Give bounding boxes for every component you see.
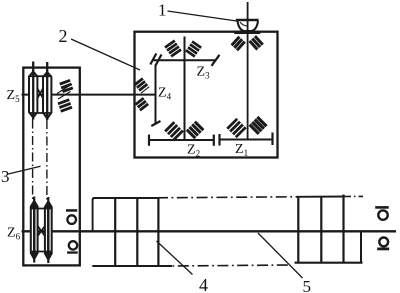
svg-text:3: 3: [1, 167, 10, 186]
right group vertical rib 3: [342, 195, 344, 263]
cup (grinding wheel) top line: [236, 19, 259, 22]
Z2 left tick: [148, 135, 150, 146]
bevel gear pair under cup, left: [232, 37, 245, 50]
Z5 pulley top connector: [29, 75, 52, 77]
worm gear beside Z5, lower: [58, 100, 72, 112]
Z2 right tick: [213, 135, 215, 146]
vertical shaft V2 (cup spindle): [247, 2, 249, 140]
Z1 right tick: [271, 133, 273, 146]
cup inner arc: [240, 22, 247, 26]
Z3 left double ticks: [150, 54, 156, 65]
table vertical rib 3: [157, 198, 159, 266]
left housing box: [23, 68, 80, 266]
bearing symbol left lower: circle: [69, 241, 77, 249]
leader line for 4: [157, 241, 193, 275]
right bottom solid line: [295, 262, 363, 264]
right short vertical rib: [360, 231, 362, 262]
worm gear beside Z5, upper: [60, 80, 73, 91]
Z6 belt cross X: [38, 226, 45, 236]
bearing symbol right upper: bar: [375, 206, 389, 209]
bearing symbol left upper: circle: [67, 215, 76, 224]
Z6 pulley left center line: [33, 197, 35, 263]
Z1 left tick: [218, 134, 220, 146]
Z5 pulley right center line: [46, 62, 48, 120]
table vertical rib 2: [136, 198, 138, 266]
vertical shaft V1: [184, 37, 186, 141]
gear on Z1, left: [227, 119, 245, 137]
svg-text:1: 1: [158, 1, 167, 20]
table top contour solid right: [296, 196, 345, 198]
svg-text:5: 5: [303, 277, 312, 293]
svg-text:4: 4: [199, 275, 208, 293]
input shaft from Z5 into gearbox: [22, 94, 156, 96]
gear pair on V1 top, left: [165, 41, 181, 57]
gearbox housing box: [135, 32, 278, 158]
bearing symbol right lower: circle: [379, 238, 388, 247]
V3 bottom end tick: [151, 121, 160, 126]
right group vertical rib 1: [297, 197, 299, 263]
table top contour dash-dot middle: [157, 197, 296, 198]
bevel gear pair under cup, right: [250, 36, 263, 49]
table top contour solid left: [93, 198, 157, 231]
input bevel gear, upper: [135, 78, 150, 93]
Z6 pulley left slits: [31, 209, 33, 252]
main long shaft line (lead screw): [22, 230, 397, 232]
worm axis line upper: [57, 84, 72, 94]
leader line for 1: [168, 11, 237, 21]
right group vertical rib 2: [320, 197, 322, 263]
leader line for 2: [71, 39, 140, 70]
Z6 pulley top connector: [30, 208, 52, 210]
table bottom dash-dot middle: [172, 265, 290, 266]
leader line for 5: [258, 233, 303, 278]
svg-text:2: 2: [59, 26, 68, 46]
Z5 pulley right body: [43, 72, 51, 119]
belt dash-dot line left: [32, 120, 34, 201]
input bevel gear, lower: [135, 98, 148, 110]
table bottom solid left: [92, 265, 172, 267]
gear on Z1, right: [250, 117, 267, 134]
Z6 pulley bottom connector: [30, 251, 52, 253]
gear pair on V1 top, right: [186, 41, 201, 56]
Z6 pulley right center line: [47, 197, 49, 263]
Z3 right end tick: [212, 55, 220, 66]
table vertical rib 1: [114, 198, 116, 266]
Z5 pulley left center line: [32, 62, 34, 120]
cup base bar: [234, 31, 260, 34]
Z5 pulley bottom connector: [29, 112, 52, 114]
bearing symbol right lower: bar: [377, 248, 389, 251]
leader line for 3: [8, 166, 40, 174]
Z6 pulley left body: [31, 201, 38, 260]
gear Z2 shaft line: [149, 139, 214, 141]
Z5 belt cross X: [38, 89, 43, 98]
vertical shaft V3: [155, 65, 157, 124]
table top contour dash-dot right end: [345, 195, 363, 197]
gear on Z2, right: [187, 122, 204, 139]
bearing symbol left lower: bar: [67, 251, 78, 253]
bearing symbol left upper: bar: [66, 209, 77, 212]
gear on Z2, left: [165, 122, 183, 140]
bearing symbol right upper: circle: [378, 210, 387, 219]
worm axis line lower: [58, 92, 71, 100]
Z5 pulley left body: [29, 72, 37, 118]
Z6 pulley right body: [45, 201, 52, 260]
belt dash-dot line right: [46, 120, 48, 201]
gear Z3 pitch line: [153, 59, 216, 61]
Z6 pulley right slits: [46, 209, 48, 252]
gear Z1 shaft line: [220, 139, 273, 141]
cup bowl: [238, 21, 259, 31]
